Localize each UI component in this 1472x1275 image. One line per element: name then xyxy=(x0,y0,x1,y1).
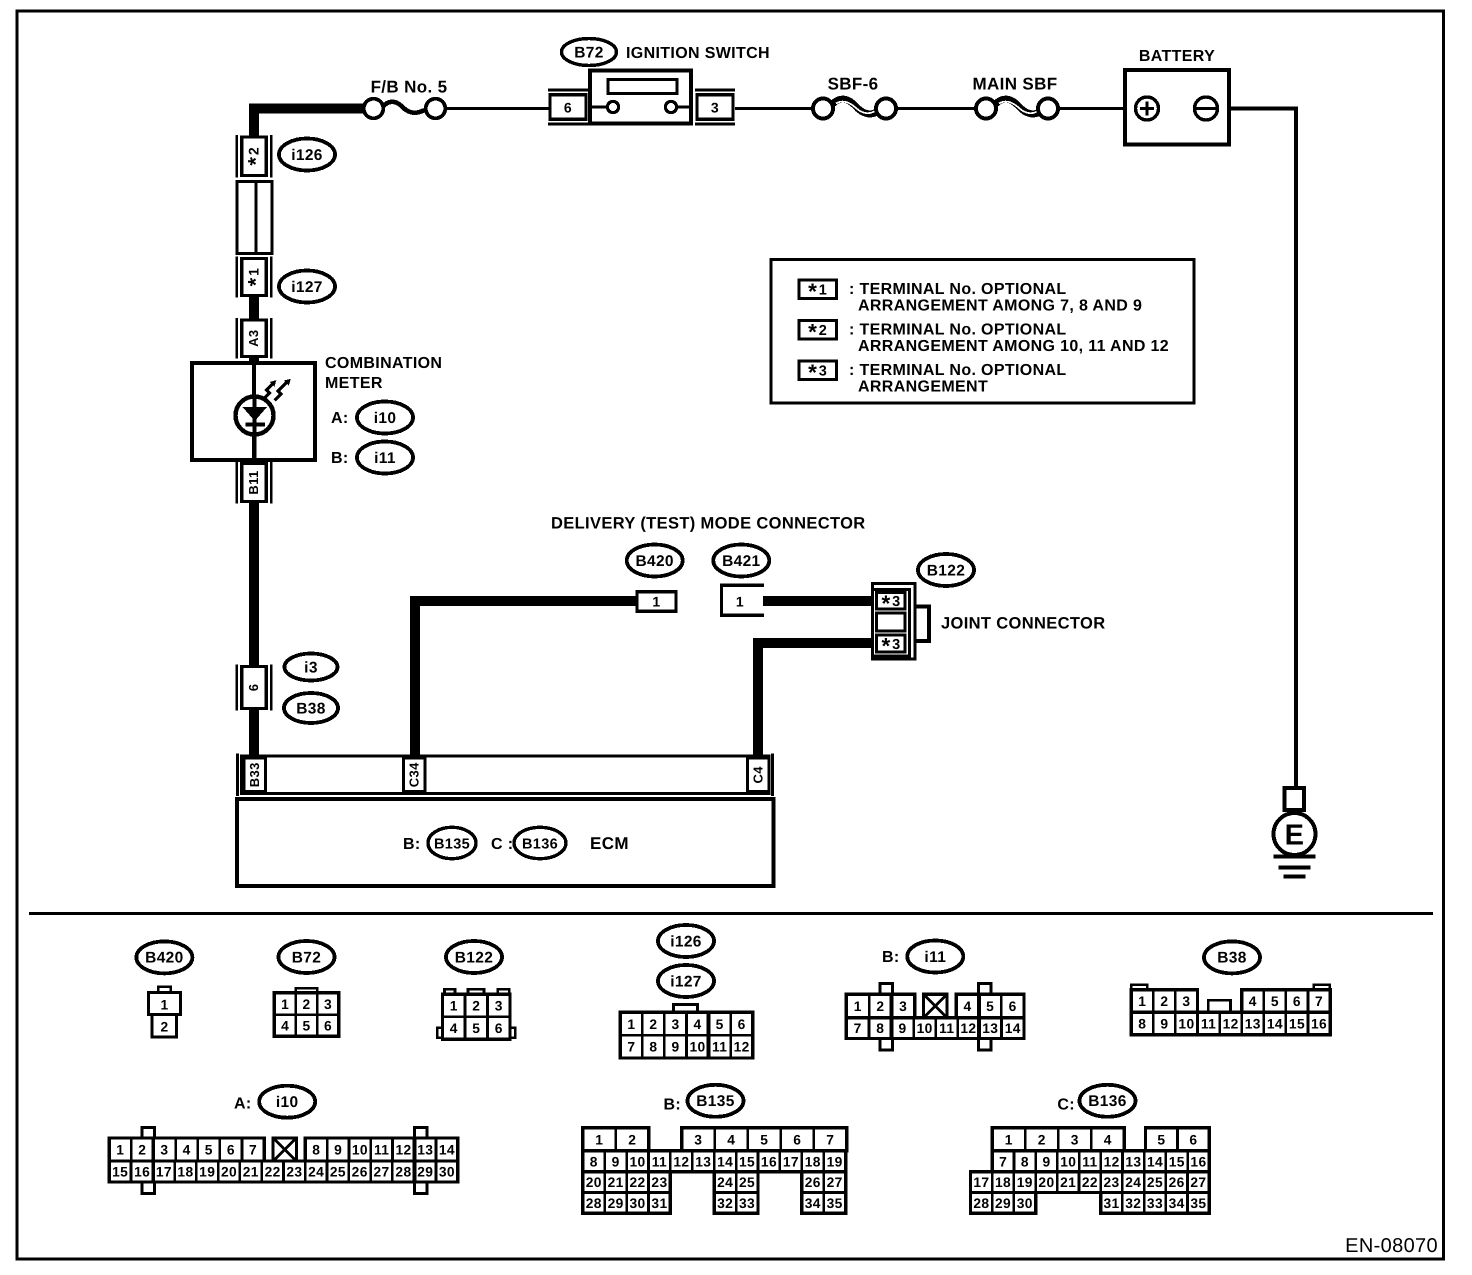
svg-text:27: 27 xyxy=(1190,1175,1206,1190)
fuse F/B No. 5 xyxy=(364,78,448,119)
oval label B72 xyxy=(562,39,617,66)
svg-text:METER: METER xyxy=(325,375,383,392)
svg-text:B420: B420 xyxy=(145,950,183,967)
svg-text:B33: B33 xyxy=(247,762,262,787)
svg-text:3: 3 xyxy=(495,999,503,1014)
svg-text:9: 9 xyxy=(334,1143,342,1158)
B420 pin 1 xyxy=(637,592,676,611)
svg-text:12: 12 xyxy=(1223,1016,1239,1031)
svg-text:B136: B136 xyxy=(522,836,558,852)
svg-text:7: 7 xyxy=(854,1021,862,1036)
svg-text:BATTERY: BATTERY xyxy=(1139,48,1215,65)
svg-text:16: 16 xyxy=(1190,1154,1206,1169)
svg-text:13: 13 xyxy=(1245,1016,1261,1031)
svg-text:SBF-6: SBF-6 xyxy=(828,75,879,94)
connector view i11 xyxy=(846,941,1024,1050)
legend key *3 xyxy=(799,361,837,380)
svg-text:13: 13 xyxy=(417,1143,433,1158)
svg-text:6: 6 xyxy=(246,684,261,692)
svg-text:13: 13 xyxy=(982,1021,998,1036)
svg-text:4: 4 xyxy=(1104,1132,1112,1147)
connector view B420 xyxy=(136,941,192,1036)
svg-text:6: 6 xyxy=(227,1143,235,1158)
svg-text:23: 23 xyxy=(651,1175,667,1190)
wire: *1 to A3 xyxy=(249,294,259,321)
wire: A3 to combination meter xyxy=(249,355,259,365)
wire: joint connector lower *3 left and down to ECM C4 xyxy=(758,643,873,757)
svg-text:3: 3 xyxy=(671,1017,679,1032)
svg-text:15: 15 xyxy=(1289,1016,1305,1031)
svg-text:14: 14 xyxy=(1267,1016,1283,1031)
svg-text:5: 5 xyxy=(760,1132,768,1147)
svg-text:14: 14 xyxy=(1147,1154,1163,1169)
svg-text:8: 8 xyxy=(590,1154,598,1169)
svg-text:10: 10 xyxy=(1178,1016,1194,1031)
wire: SBF-6 to MAIN SBF xyxy=(896,107,976,110)
svg-text:2: 2 xyxy=(876,999,884,1014)
legend key *1 xyxy=(799,280,837,299)
oval label B122 xyxy=(918,554,974,586)
svg-text:9: 9 xyxy=(671,1040,679,1055)
svg-text:17: 17 xyxy=(156,1165,172,1180)
svg-text:10: 10 xyxy=(630,1154,646,1169)
svg-text:10: 10 xyxy=(917,1021,933,1036)
svg-text:i11: i11 xyxy=(374,450,396,467)
svg-text:18: 18 xyxy=(177,1165,193,1180)
svg-text:E: E xyxy=(1285,820,1305,852)
svg-text:18: 18 xyxy=(805,1154,821,1169)
svg-text:2: 2 xyxy=(1160,994,1168,1009)
legend key *2 xyxy=(799,321,837,340)
ground E xyxy=(1274,788,1316,877)
svg-text:4: 4 xyxy=(963,999,971,1014)
svg-text:3: 3 xyxy=(324,997,332,1012)
svg-text:11: 11 xyxy=(1201,1016,1216,1031)
svg-text:B:: B: xyxy=(403,836,421,853)
ECM pin C34 xyxy=(404,758,426,792)
svg-text:27: 27 xyxy=(373,1165,389,1180)
svg-text:COMBINATION: COMBINATION xyxy=(325,355,442,372)
oval label i127 xyxy=(279,271,335,303)
svg-text:2: 2 xyxy=(303,997,311,1012)
svg-text:19: 19 xyxy=(1017,1175,1033,1190)
svg-text:C:: C: xyxy=(1057,1096,1075,1113)
wire: MAIN SBF to battery positive terminal xyxy=(1058,107,1137,110)
svg-text:5: 5 xyxy=(1157,1132,1165,1147)
svg-text:3: 3 xyxy=(1182,994,1190,1009)
svg-text:12: 12 xyxy=(1104,1154,1120,1169)
svg-text:B72: B72 xyxy=(574,44,603,61)
svg-text:21: 21 xyxy=(243,1165,259,1180)
svg-text:ARRANGEMENT AMONG 10, 11 AND 1: ARRANGEMENT AMONG 10, 11 AND 12 xyxy=(858,338,1169,355)
svg-text:i10: i10 xyxy=(276,1094,299,1111)
svg-text:2: 2 xyxy=(160,1020,168,1035)
svg-text:5: 5 xyxy=(205,1143,213,1158)
svg-text:6: 6 xyxy=(1189,1132,1197,1147)
svg-text:A3: A3 xyxy=(246,330,261,347)
svg-text:6: 6 xyxy=(1293,994,1301,1009)
svg-text:A:: A: xyxy=(331,410,349,427)
svg-text:8: 8 xyxy=(1138,1016,1146,1031)
svg-text:6: 6 xyxy=(793,1132,801,1147)
svg-text:B11: B11 xyxy=(246,470,261,494)
svg-text:23: 23 xyxy=(1104,1175,1120,1190)
svg-text:9: 9 xyxy=(1043,1154,1051,1169)
svg-text:: TERMINAL No. OPTIONAL: : TERMINAL No. OPTIONAL xyxy=(849,362,1067,379)
joint connector B122 xyxy=(873,584,930,660)
svg-text:11: 11 xyxy=(652,1154,667,1169)
svg-text:B122: B122 xyxy=(927,562,965,579)
svg-text:32: 32 xyxy=(717,1196,733,1211)
svg-text:29: 29 xyxy=(995,1196,1011,1211)
svg-text:i3: i3 xyxy=(304,659,318,676)
svg-text:8: 8 xyxy=(1021,1154,1029,1169)
svg-text:26: 26 xyxy=(805,1175,821,1190)
svg-text:8: 8 xyxy=(876,1021,884,1036)
connector view i126/i127 xyxy=(620,925,752,1058)
svg-text:33: 33 xyxy=(739,1196,755,1211)
svg-text:5: 5 xyxy=(986,999,994,1014)
svg-text:C4: C4 xyxy=(751,766,766,784)
svg-text:C :: C : xyxy=(491,836,513,853)
wire: connector 6 down to ECM B33 xyxy=(249,707,259,757)
svg-text:31: 31 xyxy=(651,1196,667,1211)
svg-text:25: 25 xyxy=(1147,1175,1163,1190)
svg-text:5: 5 xyxy=(472,1021,480,1036)
svg-text:5: 5 xyxy=(716,1017,724,1032)
svg-text:5: 5 xyxy=(1271,994,1279,1009)
svg-text:2: 2 xyxy=(628,1132,636,1147)
svg-text:4: 4 xyxy=(1249,994,1257,1009)
svg-text:: TERMINAL No. OPTIONAL: : TERMINAL No. OPTIONAL xyxy=(849,281,1067,298)
svg-text:28: 28 xyxy=(395,1165,411,1180)
oval label i3 xyxy=(285,654,338,681)
svg-text:6: 6 xyxy=(1009,999,1017,1014)
svg-text:10: 10 xyxy=(1060,1154,1076,1169)
connector A3 xyxy=(235,318,237,359)
svg-text:23: 23 xyxy=(286,1165,302,1180)
svg-text:1: 1 xyxy=(627,1017,635,1032)
ignition switch body B72 xyxy=(590,71,691,124)
wire: ignition switch connector 3 to fuse SBF-6 xyxy=(735,107,813,110)
oval label B420 xyxy=(627,545,683,577)
svg-text:9: 9 xyxy=(1160,1016,1168,1031)
svg-text:24: 24 xyxy=(1125,1175,1141,1190)
svg-text:33: 33 xyxy=(1147,1196,1163,1211)
svg-text:22: 22 xyxy=(1082,1175,1098,1190)
svg-text:15: 15 xyxy=(112,1165,128,1180)
svg-text:12: 12 xyxy=(395,1143,411,1158)
ECM body xyxy=(237,799,774,886)
svg-text:30: 30 xyxy=(1017,1196,1033,1211)
svg-text:3: 3 xyxy=(694,1132,702,1147)
svg-text:B421: B421 xyxy=(722,553,760,570)
svg-text:7: 7 xyxy=(627,1040,635,1055)
connector *2 (i126 half) xyxy=(235,135,237,178)
svg-text:10: 10 xyxy=(352,1143,368,1158)
wire: thick feed from i126 connector up and right to fuse F/B No.5 xyxy=(254,109,363,139)
svg-text:24: 24 xyxy=(717,1175,733,1190)
connector view B135 xyxy=(583,1085,847,1214)
svg-text:4: 4 xyxy=(694,1017,702,1032)
svg-text:17: 17 xyxy=(973,1175,989,1190)
svg-text:B420: B420 xyxy=(635,553,673,570)
svg-text:DELIVERY (TEST) MODE CONNECTOR: DELIVERY (TEST) MODE CONNECTOR xyxy=(551,515,866,533)
oval label B38 xyxy=(284,693,338,723)
svg-text:4: 4 xyxy=(727,1132,735,1147)
svg-text:8: 8 xyxy=(649,1040,657,1055)
svg-text:B:: B: xyxy=(331,450,349,467)
oval label i126 xyxy=(279,139,335,171)
svg-text:18: 18 xyxy=(995,1175,1011,1190)
svg-text:F/B No. 5: F/B No. 5 xyxy=(371,78,448,97)
svg-text:35: 35 xyxy=(1190,1196,1206,1211)
svg-text:B38: B38 xyxy=(1217,950,1247,967)
svg-text:15: 15 xyxy=(1169,1154,1185,1169)
battery xyxy=(1125,48,1229,145)
svg-text:16: 16 xyxy=(134,1165,150,1180)
svg-text:i11: i11 xyxy=(924,949,946,966)
svg-text:22: 22 xyxy=(630,1175,646,1190)
svg-text:3: 3 xyxy=(1071,1132,1079,1147)
svg-text:IGNITION SWITCH: IGNITION SWITCH xyxy=(626,45,770,62)
svg-text:B:: B: xyxy=(882,949,900,966)
B421 pin 1 xyxy=(722,585,765,615)
svg-text:i10: i10 xyxy=(374,410,397,427)
connector *1 (i127 half) xyxy=(235,257,237,298)
svg-text:28: 28 xyxy=(586,1196,602,1211)
wire: battery negative to ground E, down right side xyxy=(1217,109,1296,790)
svg-text:29: 29 xyxy=(608,1196,624,1211)
svg-text:30: 30 xyxy=(439,1165,455,1180)
svg-text:12: 12 xyxy=(673,1154,689,1169)
svg-text:10: 10 xyxy=(690,1040,706,1055)
svg-text:i127: i127 xyxy=(291,279,323,296)
svg-text:2: 2 xyxy=(1038,1132,1046,1147)
svg-text:20: 20 xyxy=(221,1165,237,1180)
svg-text:MAIN SBF: MAIN SBF xyxy=(973,75,1058,94)
svg-text:8: 8 xyxy=(312,1143,320,1158)
svg-text:i126: i126 xyxy=(291,147,323,164)
svg-text:1: 1 xyxy=(160,998,168,1013)
svg-text:B135: B135 xyxy=(696,1093,734,1110)
illumination LED xyxy=(236,397,274,459)
ECM pin C4 xyxy=(748,758,770,792)
svg-text:6: 6 xyxy=(738,1017,746,1032)
svg-text:34: 34 xyxy=(1169,1196,1185,1211)
svg-text:9: 9 xyxy=(612,1154,620,1169)
svg-text:2: 2 xyxy=(472,999,480,1014)
svg-text:31: 31 xyxy=(1104,1196,1120,1211)
svg-text:28: 28 xyxy=(973,1196,989,1211)
svg-text:A:: A: xyxy=(234,1095,252,1112)
svg-text:4: 4 xyxy=(281,1018,289,1033)
svg-text:B136: B136 xyxy=(1088,1093,1126,1110)
svg-text:1: 1 xyxy=(281,997,289,1012)
connector view i10 xyxy=(109,1086,458,1194)
svg-text:B72: B72 xyxy=(292,949,321,966)
connector 6 of ignition switch (B72 pin 6) xyxy=(548,90,588,124)
wire: B421 pin 1 to joint connector xyxy=(763,596,873,606)
svg-text:14: 14 xyxy=(717,1154,733,1169)
connector 6 (i3/B38) xyxy=(235,665,237,711)
svg-text:24: 24 xyxy=(308,1165,324,1180)
svg-text:6: 6 xyxy=(324,1018,332,1033)
svg-text:12: 12 xyxy=(960,1021,976,1036)
svg-text:C34: C34 xyxy=(407,762,422,787)
legend box: terminal arrangement notes xyxy=(771,260,1194,404)
svg-text:7: 7 xyxy=(249,1143,257,1158)
svg-text:3: 3 xyxy=(711,100,719,116)
svg-text:15: 15 xyxy=(739,1154,755,1169)
svg-text:22: 22 xyxy=(265,1165,281,1180)
svg-text:ARRANGEMENT: ARRANGEMENT xyxy=(858,379,988,396)
svg-text:32: 32 xyxy=(1125,1196,1141,1211)
svg-text:16: 16 xyxy=(1311,1016,1327,1031)
connector 3 of ignition switch (B72 pin 3) xyxy=(695,90,735,124)
svg-text:1: 1 xyxy=(1138,994,1146,1009)
connector view B122 xyxy=(437,941,515,1039)
separator line between schematic and connector views xyxy=(29,912,1433,915)
svg-text:25: 25 xyxy=(330,1165,346,1180)
svg-text:27: 27 xyxy=(827,1175,843,1190)
svg-text:13: 13 xyxy=(1125,1154,1141,1169)
svg-text:16: 16 xyxy=(761,1154,777,1169)
svg-text:1: 1 xyxy=(595,1132,603,1147)
svg-text:4: 4 xyxy=(450,1021,458,1036)
svg-text:19: 19 xyxy=(827,1154,843,1169)
svg-text:1: 1 xyxy=(116,1143,124,1158)
svg-text:5: 5 xyxy=(303,1018,311,1033)
svg-text:20: 20 xyxy=(586,1175,602,1190)
LED light arrows xyxy=(264,379,291,401)
svg-text:2: 2 xyxy=(649,1017,657,1032)
connector view B136 xyxy=(971,1085,1210,1214)
svg-text:26: 26 xyxy=(352,1165,368,1180)
svg-text:26: 26 xyxy=(1169,1175,1185,1190)
svg-text:i126: i126 xyxy=(670,933,702,950)
svg-text:1: 1 xyxy=(652,594,660,610)
svg-text:14: 14 xyxy=(1005,1021,1021,1036)
svg-text:17: 17 xyxy=(783,1154,799,1169)
svg-text:ECM: ECM xyxy=(590,834,629,853)
fusible link SBF-6 xyxy=(813,75,896,119)
svg-text:20: 20 xyxy=(1038,1175,1054,1190)
svg-text:11: 11 xyxy=(374,1143,389,1158)
svg-text:7: 7 xyxy=(826,1132,834,1147)
svg-text:EN-08070: EN-08070 xyxy=(1345,1235,1438,1257)
svg-text:: TERMINAL No. OPTIONAL: : TERMINAL No. OPTIONAL xyxy=(849,322,1067,339)
svg-text:ARRANGEMENT AMONG 7, 8 AND 9: ARRANGEMENT AMONG 7, 8 AND 9 xyxy=(858,298,1142,315)
ECM pin B33 xyxy=(244,758,266,792)
wire: B420 pin 1 left and down to ECM C34 xyxy=(415,601,637,757)
svg-text:35: 35 xyxy=(827,1196,843,1211)
svg-text:11: 11 xyxy=(1082,1154,1097,1169)
ECM connector strip xyxy=(238,754,773,797)
svg-text:1: 1 xyxy=(736,594,744,610)
svg-text:11: 11 xyxy=(712,1040,727,1055)
wire: fuse F/B No.5 to ignition switch connector 6 xyxy=(446,107,549,110)
i126/i127 connector body xyxy=(237,182,272,254)
svg-text:25: 25 xyxy=(739,1175,755,1190)
wire: meter B11 down to connector 6 xyxy=(249,460,259,464)
svg-text:6: 6 xyxy=(495,1021,503,1036)
svg-text:12: 12 xyxy=(734,1040,750,1055)
svg-text:11: 11 xyxy=(939,1021,954,1036)
svg-text:6: 6 xyxy=(564,100,572,116)
svg-text:9: 9 xyxy=(899,1021,907,1036)
svg-text:14: 14 xyxy=(439,1143,455,1158)
oval label B421 xyxy=(713,545,769,577)
combination meter box xyxy=(192,363,315,460)
svg-text:29: 29 xyxy=(417,1165,433,1180)
svg-text:1: 1 xyxy=(1005,1132,1013,1147)
svg-text:B:: B: xyxy=(664,1096,682,1113)
svg-text:1: 1 xyxy=(450,999,458,1014)
svg-text:i127: i127 xyxy=(670,973,702,990)
connector view B72 xyxy=(274,941,338,1036)
svg-text:JOINT CONNECTOR: JOINT CONNECTOR xyxy=(941,615,1105,633)
svg-text:3: 3 xyxy=(899,999,907,1014)
svg-text:7: 7 xyxy=(1315,994,1323,1009)
svg-text:7: 7 xyxy=(999,1154,1007,1169)
svg-text:B38: B38 xyxy=(296,700,326,717)
svg-text:1: 1 xyxy=(854,999,862,1014)
svg-text:34: 34 xyxy=(805,1196,821,1211)
svg-text:30: 30 xyxy=(630,1196,646,1211)
svg-text:3: 3 xyxy=(160,1143,168,1158)
svg-text:4: 4 xyxy=(183,1143,191,1158)
svg-text:2: 2 xyxy=(138,1143,146,1158)
svg-text:19: 19 xyxy=(199,1165,215,1180)
svg-text:B135: B135 xyxy=(434,836,470,852)
connector view B38 xyxy=(1131,941,1330,1034)
fusible link MAIN SBF xyxy=(973,75,1058,119)
connector B11 xyxy=(235,462,237,504)
svg-text:21: 21 xyxy=(608,1175,624,1190)
svg-text:B122: B122 xyxy=(455,949,493,966)
svg-text:21: 21 xyxy=(1060,1175,1076,1190)
svg-text:13: 13 xyxy=(695,1154,711,1169)
